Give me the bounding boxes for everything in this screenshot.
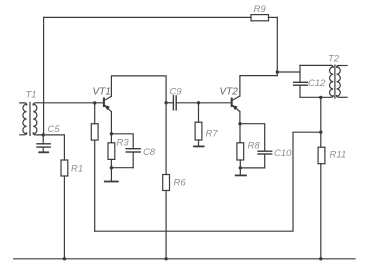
resistor R8 — [239, 124, 241, 143]
wire collector node to tank — [277, 71, 300, 73]
resistor R3 — [110, 134, 112, 143]
transistor VT2 — [232, 96, 240, 112]
secondary winding arcs — [33, 104, 37, 134]
wire R6 to bottom rail — [165, 191, 167, 259]
ground under R8 — [239, 168, 241, 175]
wire top rail right segment — [269, 16, 278, 18]
transistor VT1 — [104, 96, 112, 111]
node C9 / R7 / VT2 base — [197, 101, 200, 104]
primary top lead — [20, 103, 27, 105]
resistor R7 — [198, 103, 200, 122]
node rail / tank — [276, 70, 279, 73]
svg-text:VT2: VT2 — [220, 87, 239, 98]
wire VT2 collector — [240, 76, 277, 96]
wire R11 to bottom rail — [320, 164, 322, 259]
primary winding arcs — [331, 65, 334, 67]
ground under R3 — [110, 168, 112, 181]
wire VT1 collector loop — [111, 76, 166, 175]
wire R1 to bottom rail — [63, 176, 65, 259]
svg-text:C8: C8 — [143, 147, 156, 158]
svg-text:C10: C10 — [274, 148, 292, 159]
wire VT2 emitter down — [239, 112, 241, 124]
wire VT1 emitter down — [110, 112, 112, 134]
capacitor C10 — [240, 124, 272, 168]
resistor R1 — [61, 160, 68, 176]
node tank bottom / R11 — [319, 96, 322, 99]
secondary bottom lead — [33, 133, 43, 135]
svg-text:C12: C12 — [308, 78, 326, 89]
svg-text:R7: R7 — [206, 129, 219, 140]
wire R3/C8 bottom — [111, 167, 133, 169]
node VT1 base / R2 — [93, 101, 96, 104]
node R8/C10 bottom — [239, 166, 242, 169]
capacitor C9 — [166, 96, 198, 110]
wire bottom rail — [14, 258, 355, 260]
svg-text:R3: R3 — [117, 138, 130, 149]
ground under R7 — [194, 145, 204, 147]
svg-text:R11: R11 — [330, 150, 347, 161]
svg-text:C9: C9 — [170, 87, 183, 98]
wire tank top — [300, 64, 331, 66]
wire tank bottom to R11 — [320, 97, 322, 147]
svg-text:R8: R8 — [248, 141, 261, 152]
wire R8/C10 bottom — [240, 167, 264, 169]
primary bottom lead — [20, 133, 27, 135]
svg-text:T2: T2 — [328, 54, 340, 65]
resistor R9 — [251, 15, 269, 21]
wire C9 to VT2 base — [199, 102, 232, 104]
capacitor C8 — [111, 134, 140, 168]
primary winding arcs — [23, 104, 27, 134]
wire top rail left segment — [44, 16, 251, 18]
svg-text:R1: R1 — [71, 164, 83, 175]
svg-text:T1: T1 — [26, 90, 37, 101]
wire C5 node to R1 — [43, 135, 64, 160]
wire tank bottom — [300, 96, 331, 98]
node VT1 emitter / R3 / C8 — [110, 132, 113, 135]
node R11 top / feedback — [319, 131, 322, 134]
core — [29, 103, 31, 136]
node R1 / bottom rail — [63, 257, 66, 260]
core — [334, 65, 336, 98]
svg-text:R9: R9 — [254, 4, 267, 15]
node collector / C9 / R6 — [164, 101, 167, 104]
secondary winding arcs — [337, 66, 340, 68]
secondary bottom lead — [339, 96, 347, 98]
svg-text:R6: R6 — [174, 178, 187, 189]
node T1/C5/R1 junction — [42, 133, 45, 136]
transformer T2 — [330, 65, 348, 98]
node R6 / bottom rail — [164, 257, 167, 260]
capacitor C5 — [37, 135, 50, 152]
capacitor C12 — [294, 65, 308, 97]
resistor R2 (base bias, unlabeled) — [94, 103, 96, 124]
secondary top lead to base wire — [33, 103, 104, 105]
node VT2 emitter / R8 / C10 — [238, 122, 241, 125]
node R3/C8 bottom — [110, 166, 113, 169]
resistor R11 — [318, 147, 325, 164]
resistor R6 — [163, 175, 170, 191]
svg-text:C5: C5 — [48, 124, 61, 135]
transformer T1 — [20, 103, 104, 136]
wire left vertical from rail to T1 bottom — [43, 17, 45, 134]
secondary top lead — [339, 65, 347, 67]
node R11 / bottom rail — [319, 257, 322, 260]
ground under C5 — [39, 151, 48, 153]
wire right vertical from rail to VT2 collector node — [276, 17, 278, 75]
wire R2 to feedback line — [94, 140, 96, 231]
svg-text:VT1: VT1 — [93, 87, 111, 98]
wire feedback line — [95, 132, 321, 231]
